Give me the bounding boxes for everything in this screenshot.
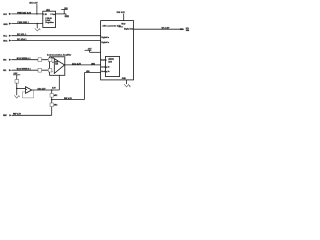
svg-text:+: +	[26, 89, 27, 91]
svg-text:ADC 4.5V: ADC 4.5V	[37, 87, 46, 90]
svg-text:SCL: SCL	[186, 28, 189, 30]
svg-text:Digital In: Digital In	[101, 36, 109, 39]
svg-text:128: 128	[55, 64, 58, 66]
svg-text:ECG WIRE B 1: ECG WIRE B 1	[17, 69, 32, 71]
svg-text:4R4: 4R4	[54, 104, 57, 107]
svg-text:PWR BAT 9.0V: PWR BAT 9.0V	[17, 11, 32, 14]
svg-text:VDD: VDD	[121, 24, 126, 26]
svg-text:Instrumentation Amplifier: Instrumentation Amplifier	[47, 54, 71, 57]
svg-text:4N1 9.0V: 4N1 9.0V	[29, 1, 38, 4]
svg-text:I2C SDA 1: I2C SDA 1	[17, 38, 27, 41]
svg-text:I2C 3.3V: I2C 3.3V	[162, 27, 170, 29]
svg-text:5V0: 5V0	[64, 8, 67, 10]
svg-text:I2C SCL 1: I2C SCL 1	[17, 34, 27, 36]
svg-text:4R3: 4R3	[54, 94, 57, 97]
svg-text:V Out: V Out	[50, 13, 55, 16]
svg-text:1: 1	[129, 86, 130, 88]
svg-text:ADC: ADC	[108, 57, 114, 61]
svg-text:REF 4.5V: REF 4.5V	[64, 97, 73, 100]
svg-text:SDA: SDA	[3, 40, 8, 43]
svg-text:REF 4.5V: REF 4.5V	[13, 113, 22, 116]
svg-text:4R8: 4R8	[86, 70, 89, 73]
svg-text:PWR GND 1: PWR GND 1	[17, 22, 29, 24]
svg-text:5V3 3.3V: 5V3 3.3V	[117, 12, 126, 14]
svg-text:GND: GND	[3, 24, 8, 26]
svg-text:ADC 4.5V: ADC 4.5V	[72, 62, 82, 65]
svg-text:Digital In: Digital In	[101, 41, 109, 44]
svg-text:4W2: 4W2	[91, 62, 95, 65]
svg-text:ECG WIRE A 1: ECG WIRE A 1	[17, 57, 32, 60]
svg-text:GND: GND	[122, 78, 127, 80]
svg-text:Digital Out: Digital Out	[124, 27, 133, 30]
svg-text:Regulator: Regulator	[45, 21, 54, 24]
